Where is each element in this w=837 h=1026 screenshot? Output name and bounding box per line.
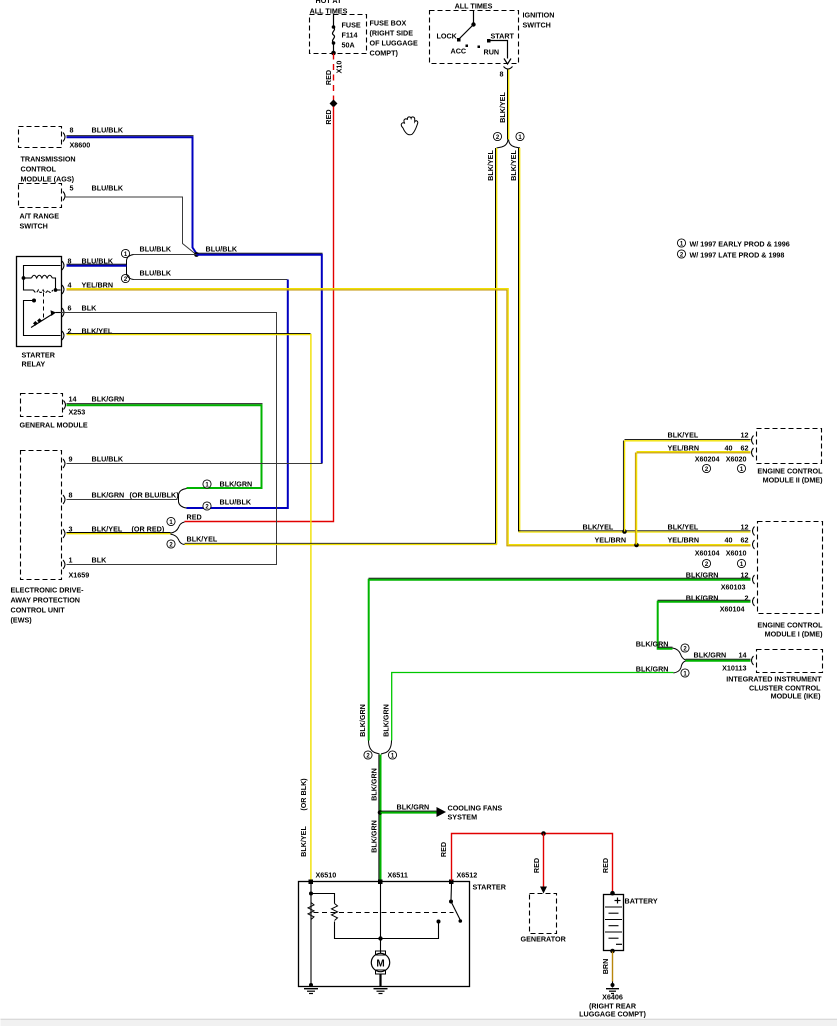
svg-text:ENGINE CONTROL: ENGINE CONTROL <box>757 467 823 476</box>
wire RED dashed from fuse <box>333 54 335 101</box>
svg-text:BLU/BLK: BLU/BLK <box>140 245 172 254</box>
svg-text:BLK/GRN: BLK/GRN <box>369 768 378 801</box>
starter solenoid coils <box>308 884 441 985</box>
svg-text:62: 62 <box>741 536 749 545</box>
note circle 1 legend <box>677 239 789 249</box>
svg-text:(RIGHT SIDE: (RIGHT SIDE <box>370 29 414 38</box>
integrated instrument cluster control module (IKE) <box>694 650 823 701</box>
wire EWS pin 8 stub and splice <box>67 480 253 511</box>
battery <box>604 891 658 953</box>
svg-text:X6511: X6511 <box>388 871 408 880</box>
connector X10 diamond <box>330 100 338 108</box>
svg-text:YEL/BRN: YEL/BRN <box>595 536 627 545</box>
svg-text:YEL/BRN: YEL/BRN <box>668 444 700 453</box>
svg-text:40: 40 <box>725 444 733 453</box>
svg-text:STARTER: STARTER <box>473 883 507 892</box>
svg-text:ACC: ACC <box>451 47 467 56</box>
svg-text:X60103: X60103 <box>721 583 746 592</box>
relay pin arcs <box>62 261 64 340</box>
svg-text:6: 6 <box>68 304 72 313</box>
svg-text:BLK/GRN: BLK/GRN <box>397 803 430 812</box>
svg-text:SYSTEM: SYSTEM <box>448 813 478 822</box>
svg-text:X6406: X6406 <box>602 993 623 1002</box>
svg-text:X253: X253 <box>69 408 86 417</box>
svg-text:BLK/YEL: BLK/YEL <box>187 535 218 544</box>
svg-text:MODULE (AGS): MODULE (AGS) <box>21 175 75 184</box>
svg-text:BRN: BRN <box>601 959 610 975</box>
svg-text:BLK/YEL: BLK/YEL <box>668 523 699 532</box>
junction at fuse box bottom <box>331 51 336 56</box>
svg-text:8: 8 <box>500 70 504 79</box>
wire BLU/BLK relay branch 2 to EWS pin 8 branch 2 <box>134 280 288 509</box>
svg-text:X60104: X60104 <box>695 549 720 558</box>
ignition switch box <box>430 2 555 64</box>
wire YEL/BRN from relay pin 4 to ECM junction <box>67 289 751 546</box>
svg-text:1: 1 <box>69 556 73 565</box>
svg-text:INTEGRATED INSTRUMENT: INTEGRATED INSTRUMENT <box>726 675 822 684</box>
note circle 2 legend <box>677 250 784 260</box>
wire BLK/GRN to cooling fans system <box>381 803 503 822</box>
svg-text:STARTER: STARTER <box>22 351 56 360</box>
transmission control module (AGS) <box>19 126 124 184</box>
svg-text:CONTROL UNIT: CONTROL UNIT <box>11 606 66 615</box>
svg-text:IGNITION: IGNITION <box>523 11 555 20</box>
svg-text:RED: RED <box>532 858 541 873</box>
wire BLK/YEL branch1 horizontal to ECM pins 12 <box>519 523 751 534</box>
starter relay box <box>17 257 62 369</box>
svg-text:X8600: X8600 <box>70 141 91 150</box>
svg-text:14: 14 <box>69 395 77 404</box>
svg-text:(EWS): (EWS) <box>11 616 33 625</box>
svg-text:RED: RED <box>601 858 610 873</box>
relay coil <box>22 266 61 293</box>
svg-text:GENERATOR: GENERATOR <box>521 935 567 944</box>
engine control module II (DME) <box>668 429 824 485</box>
svg-text:X1659: X1659 <box>69 571 90 580</box>
svg-text:40: 40 <box>725 536 733 545</box>
wire BLU/BLK relay branch 1 to junction <box>134 254 197 256</box>
ground X6406 right rear luggage compt <box>579 982 646 1019</box>
svg-text:BLK/GRN: BLK/GRN <box>92 491 125 500</box>
starter motor M <box>371 882 389 987</box>
svg-text:X6020: X6020 <box>726 455 747 464</box>
svg-text:TRANSMISSION: TRANSMISSION <box>21 155 76 164</box>
starter solenoid actuator dashed link <box>314 912 454 914</box>
svg-text:14: 14 <box>739 651 747 660</box>
svg-text:X10113: X10113 <box>722 664 746 673</box>
svg-text:RUN: RUN <box>484 48 500 57</box>
svg-text:W/ 1997 LATE PROD & 1998: W/ 1997 LATE PROD & 1998 <box>690 251 785 260</box>
svg-text:BLK/YEL: BLK/YEL <box>486 150 495 181</box>
starter switch <box>449 884 462 923</box>
ground at starter motor <box>374 989 388 994</box>
wire BLU/BLK relay pin 8 stub <box>67 264 127 266</box>
junction at cooling fans branch <box>378 810 383 815</box>
wire BLK/GRN merged down to starter X6511 <box>369 755 380 881</box>
svg-text:BLU/BLK: BLU/BLK <box>82 257 114 266</box>
svg-text:GENERAL MODULE: GENERAL MODULE <box>20 421 88 430</box>
generator box <box>521 894 567 944</box>
wire BLU/BLK EWS pin 9 stub <box>67 463 323 465</box>
fuse box (right side of luggage compt) <box>310 0 419 58</box>
wire RED branch to generator <box>540 834 547 894</box>
svg-text:X6510: X6510 <box>316 871 337 880</box>
svg-text:X60104: X60104 <box>720 605 745 614</box>
svg-text:ENGINE CONTROL: ENGINE CONTROL <box>757 621 823 630</box>
wire BLK/YEL branch 1 vertical <box>509 148 520 533</box>
svg-text:AWAY PROTECTION: AWAY PROTECTION <box>11 596 81 605</box>
splice at EWS pin 3 <box>167 513 218 549</box>
svg-text:BLK/GRN: BLK/GRN <box>694 651 727 660</box>
relay switch <box>24 293 61 336</box>
svg-text:RED: RED <box>439 842 448 857</box>
svg-text:MODULE (IKE): MODULE (IKE) <box>771 692 822 701</box>
svg-text:BLK/YEL: BLK/YEL <box>583 523 614 532</box>
wire BLK/YEL branch 2 vertical <box>486 148 497 545</box>
svg-text:12: 12 <box>741 523 749 532</box>
svg-text:ELECTRONIC DRIVE-: ELECTRONIC DRIVE- <box>11 586 85 595</box>
svg-text:START: START <box>491 32 515 41</box>
wire BLK/YEL from ignition pin 8 <box>498 70 509 140</box>
svg-text:BLK/GRN: BLK/GRN <box>92 395 125 404</box>
wire BLK/YEL vertical to ECM II pin 12 <box>623 440 750 532</box>
bottom ui bar <box>1 1019 837 1020</box>
svg-text:RED: RED <box>187 513 202 522</box>
svg-text:BLK/GRN: BLK/GRN <box>636 640 669 649</box>
svg-text:BLU/BLK: BLU/BLK <box>92 184 124 193</box>
hand cursor icon <box>401 117 418 135</box>
a/t range switch <box>19 184 124 231</box>
svg-text:RED: RED <box>324 70 333 85</box>
svg-text:COOLING FANS: COOLING FANS <box>448 804 503 813</box>
wire BLK/GRN ECM I pin 2 to IKE branch 2 <box>658 600 751 649</box>
svg-text:CONTROL: CONTROL <box>21 165 57 174</box>
svg-text:SWITCH: SWITCH <box>20 222 48 231</box>
wire BLK/GRN merged to IKE pin 14 <box>686 659 751 661</box>
svg-text:BLK/GRN: BLK/GRN <box>220 480 253 489</box>
svg-text:8: 8 <box>68 257 72 266</box>
wire BLU/BLK thick from junction to EWS pin 9 <box>197 253 323 463</box>
junction node BLU/BLK <box>194 252 199 257</box>
svg-text:HOT AT: HOT AT <box>316 0 343 5</box>
svg-text:BLU/BLK: BLU/BLK <box>92 126 124 135</box>
splice split to branches 2 and 1 <box>493 132 524 148</box>
wire BLK/GRN ECM I pin 12 long run <box>369 578 751 740</box>
svg-text:BLU/BLK: BLU/BLK <box>220 498 252 507</box>
svg-text:ALL TIMES: ALL TIMES <box>310 7 348 16</box>
svg-text:BLU/BLK: BLU/BLK <box>140 269 172 278</box>
wire RED solid down to EWS branch <box>185 107 334 522</box>
ignition switch contacts <box>437 11 515 79</box>
splice at IKE pin 14 <box>636 640 689 678</box>
svg-text:X6010: X6010 <box>726 549 747 558</box>
svg-text:BLK/YEL: BLK/YEL <box>509 150 518 181</box>
relay pin labels <box>68 257 114 336</box>
wire BLK/GRN thin branch 1 to merge <box>392 673 674 741</box>
svg-text:YEL/BRN: YEL/BRN <box>668 536 700 545</box>
wire RED from starter X6512 to battery <box>439 831 613 892</box>
starter box <box>299 871 507 987</box>
svg-text:W/ 1997 EARLY PROD & 1996: W/ 1997 EARLY PROD & 1996 <box>690 240 790 249</box>
ground at starter left <box>304 983 318 994</box>
wire BLK EWS pin 1 stub <box>67 564 277 566</box>
electronic drive-away protection control unit (EWS) <box>11 451 180 625</box>
svg-text:X10: X10 <box>334 61 343 74</box>
wire BLK/YEL from relay pin 2 to starter X6510 <box>67 333 311 880</box>
svg-text:MODULE II (DME): MODULE II (DME) <box>763 476 823 485</box>
svg-text:12: 12 <box>741 431 749 440</box>
wire BLK/YEL EWS branch 2 to ignition branch 2 <box>185 543 498 544</box>
svg-text:BLK/YEL: BLK/YEL <box>668 431 699 440</box>
svg-text:62: 62 <box>741 444 749 453</box>
svg-text:BLK/YEL: BLK/YEL <box>299 826 308 857</box>
general module <box>20 394 125 430</box>
svg-text:BLK/GRN: BLK/GRN <box>381 704 390 737</box>
svg-text:LUGGAGE COMPT): LUGGAGE COMPT) <box>579 1010 646 1019</box>
svg-text:BLU/BLK: BLU/BLK <box>92 455 124 464</box>
svg-text:BLK/GRN: BLK/GRN <box>358 704 367 737</box>
wire BLK/GRN from general module to EWS pin 8 branch 1 <box>67 404 263 488</box>
merge splice of green branches <box>364 741 397 760</box>
svg-text:SWITCH: SWITCH <box>523 21 551 30</box>
wire BRN from battery negative <box>601 952 613 982</box>
svg-text:(OR BLU/BLK): (OR BLU/BLK) <box>130 491 180 500</box>
fuse F114 50A <box>332 14 361 53</box>
svg-text:9: 9 <box>69 455 73 464</box>
svg-text:BATTERY: BATTERY <box>625 897 658 906</box>
svg-text:BLK/YEL: BLK/YEL <box>498 92 507 123</box>
svg-text:RELAY: RELAY <box>22 360 46 369</box>
wire EWS pin 3 stub BLK/YEL <box>67 533 171 534</box>
svg-text:BLK: BLK <box>82 304 98 313</box>
svg-text:OF LUGGAGE: OF LUGGAGE <box>370 39 419 48</box>
svg-text:X6512: X6512 <box>457 871 478 880</box>
svg-text:8: 8 <box>69 491 73 500</box>
wire BLU/BLK from TCM pin 8 <box>67 136 197 254</box>
svg-text:M: M <box>376 959 384 970</box>
svg-text:A/T RANGE: A/T RANGE <box>20 212 60 221</box>
svg-text:COMPT): COMPT) <box>370 49 399 58</box>
svg-text:50A: 50A <box>342 41 355 50</box>
svg-text:FUSE: FUSE <box>342 21 361 30</box>
svg-text:ALL TIMES: ALL TIMES <box>455 2 493 11</box>
svg-text:RED: RED <box>324 109 333 124</box>
splice labels at relay pin 8 <box>121 245 237 284</box>
svg-text:BLK/GRN: BLK/GRN <box>369 820 378 853</box>
svg-text:MODULE I (DME): MODULE I (DME) <box>765 630 823 639</box>
svg-text:(OR BLK): (OR BLK) <box>299 778 308 811</box>
svg-text:5: 5 <box>70 184 74 193</box>
svg-text:F114: F114 <box>342 31 358 40</box>
engine control module I (DME) <box>668 522 824 639</box>
svg-text:8: 8 <box>70 126 74 135</box>
junction YEL/BRN to ECM pins 62 <box>595 452 751 548</box>
svg-text:LOCK: LOCK <box>437 32 458 41</box>
wire BLK from relay pin 6 to EWS pin 1 <box>61 313 277 565</box>
svg-text:BLK: BLK <box>92 556 108 565</box>
svg-text:FUSE BOX: FUSE BOX <box>370 19 407 28</box>
svg-text:BLU/BLK: BLU/BLK <box>206 245 238 254</box>
wire BLU/BLK from A/T range switch <box>66 197 196 254</box>
svg-text:X60204: X60204 <box>695 455 720 464</box>
